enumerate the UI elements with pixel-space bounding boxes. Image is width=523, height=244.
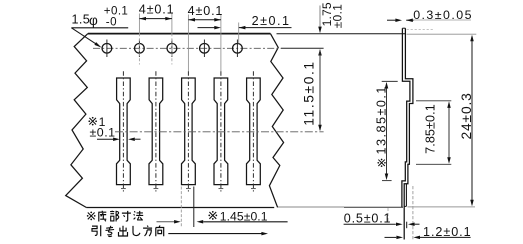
svg-text:±0.1: ±0.1 xyxy=(90,126,116,140)
svg-text:φ: φ xyxy=(89,13,98,28)
svg-text:-0: -0 xyxy=(106,16,117,29)
svg-text:13.85±0.1: 13.85±0.1 xyxy=(374,85,388,154)
svg-text:4±0.1: 4±0.1 xyxy=(139,2,175,16)
svg-text:1.2±0.1: 1.2±0.1 xyxy=(423,225,472,239)
svg-text:7.85±0.1: 7.85±0.1 xyxy=(423,104,437,154)
svg-text:±0.1: ±0.1 xyxy=(331,4,345,28)
svg-text:1.45±0.1: 1.45±0.1 xyxy=(220,209,268,223)
svg-text:0.5±0.1: 0.5±0.1 xyxy=(344,211,392,225)
svg-text:2±0.1: 2±0.1 xyxy=(252,14,291,28)
svg-text:11.5±0.1: 11.5±0.1 xyxy=(301,60,316,125)
svg-text:4±0.1: 4±0.1 xyxy=(188,4,224,18)
svg-text:1.5: 1.5 xyxy=(72,12,91,26)
svg-text:24±0.3: 24±0.3 xyxy=(459,92,474,139)
